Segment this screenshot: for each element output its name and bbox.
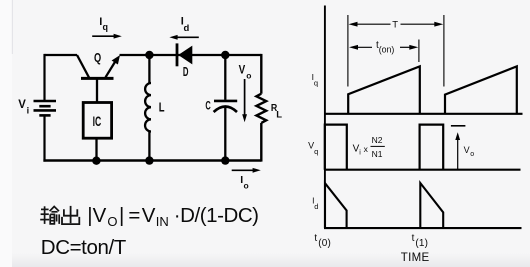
wire left vertical (rail to battery +) <box>43 54 45 100</box>
battery Vi <box>34 101 57 115</box>
label Vq (waveform) <box>308 140 318 156</box>
label Id (waveform) <box>312 195 318 211</box>
current arrow Io <box>232 168 261 173</box>
svg-text:T: T <box>392 19 398 30</box>
svg-text:o: o <box>244 180 249 190</box>
bottom rail (ground return) <box>43 159 261 161</box>
node junction top at L <box>145 51 153 59</box>
svg-text:V: V <box>464 145 470 155</box>
transistor Q <box>77 55 117 78</box>
svg-text:=: = <box>128 204 140 227</box>
Iq baseline <box>324 113 523 115</box>
wire top rail right (collector node to RL corner) <box>120 54 262 56</box>
svg-text:x: x <box>364 144 369 154</box>
svg-text:TIME: TIME <box>401 252 430 264</box>
svg-text:V: V <box>142 204 156 227</box>
svg-text:(0): (0) <box>318 238 331 249</box>
svg-text:L: L <box>159 100 165 114</box>
svg-text:D: D <box>183 64 189 79</box>
Id ramp 2 <box>420 183 443 228</box>
dimension tick left (t0 edge) <box>347 15 349 87</box>
dimension arrow t(on) <box>349 45 418 50</box>
label Iq (waveform) <box>312 72 318 87</box>
inductor L <box>145 55 151 161</box>
current arrow Id <box>169 35 198 40</box>
svg-text:V: V <box>239 65 246 77</box>
svg-text:q: q <box>314 147 318 156</box>
waveform axis (vertical) <box>324 6 326 229</box>
Id baseline (time axis) <box>324 227 522 229</box>
label RL <box>271 102 282 120</box>
svg-text:IC: IC <box>93 114 102 129</box>
svg-text:|: | <box>119 204 124 227</box>
svg-text:O: O <box>107 214 117 229</box>
svg-text:q: q <box>314 78 318 87</box>
svg-text:i: i <box>27 106 30 116</box>
voltage arrow Vo <box>242 79 247 122</box>
svg-text:DC=ton/T: DC=ton/T <box>41 236 127 259</box>
formula line 1: |Vo| = VIN x D/(1-DC) <box>87 204 258 229</box>
svg-text:d: d <box>314 202 318 211</box>
node junction bottom at IC <box>92 157 100 165</box>
label t(1) <box>412 233 429 249</box>
voltage arrow Vo (waveform) <box>455 132 460 169</box>
label Vi <box>18 99 29 115</box>
svg-text:IN: IN <box>156 214 169 229</box>
svg-text:|V: |V <box>87 204 106 227</box>
capacitor C <box>214 55 238 161</box>
transistor Q collector arrowhead <box>112 55 120 64</box>
current arrow Iq <box>92 34 122 39</box>
label Io <box>240 174 249 190</box>
svg-text:(on): (on) <box>379 45 395 55</box>
label Vi x N2/N1 <box>353 135 385 159</box>
svg-text:N1: N1 <box>372 149 383 159</box>
diode D cathode bar <box>176 43 179 66</box>
svg-text:V: V <box>18 99 26 111</box>
resistor RL <box>256 54 266 162</box>
dimension arrow T <box>349 22 444 27</box>
Iq ramp 2 <box>445 66 517 113</box>
svg-text:(1): (1) <box>415 238 428 249</box>
label t(on) <box>376 40 394 54</box>
dimension tick T right <box>443 15 445 87</box>
svg-text:q: q <box>103 22 109 32</box>
Id ramp 1 <box>325 183 347 228</box>
label Id <box>181 16 190 34</box>
svg-text:t: t <box>412 233 415 244</box>
hanzi 出 (output formula) <box>62 206 79 224</box>
svg-text:t: t <box>314 233 317 244</box>
Vq baseline <box>324 169 521 171</box>
node junction top at C <box>221 51 229 59</box>
label t(0) <box>314 233 331 249</box>
node junction bottom at L <box>145 156 153 164</box>
Vo level tick (waveform) <box>451 125 466 127</box>
svg-text:N2: N2 <box>372 135 383 145</box>
svg-text:·D/(1-DC): ·D/(1-DC) <box>174 204 259 227</box>
label Vo (waveform) <box>464 145 475 158</box>
wire IC bottom lead <box>95 138 97 160</box>
svg-text:Q: Q <box>94 50 101 65</box>
Vq pulse 2 <box>420 125 444 170</box>
diode D triangle <box>178 46 192 65</box>
Vq pulse 1 <box>325 125 347 170</box>
label Iq <box>99 16 108 32</box>
svg-text:C: C <box>205 101 210 113</box>
node junction bottom at C <box>221 156 229 164</box>
wire top rail left (battery to transistor emitter) <box>45 54 78 56</box>
label Vo (circuit) <box>239 65 252 81</box>
dimension tick t(on) right <box>418 40 420 63</box>
wire base lead Q to IC <box>96 78 98 102</box>
svg-text:d: d <box>184 23 190 34</box>
hanzi 输 (output formula) <box>40 206 59 224</box>
svg-text:L: L <box>276 110 282 121</box>
svg-text:o: o <box>246 70 251 80</box>
Iq ramp 1 <box>348 66 420 113</box>
wire battery - to bottom rail <box>43 115 45 161</box>
IC U1 box <box>83 103 111 139</box>
svg-text:o: o <box>470 151 474 158</box>
